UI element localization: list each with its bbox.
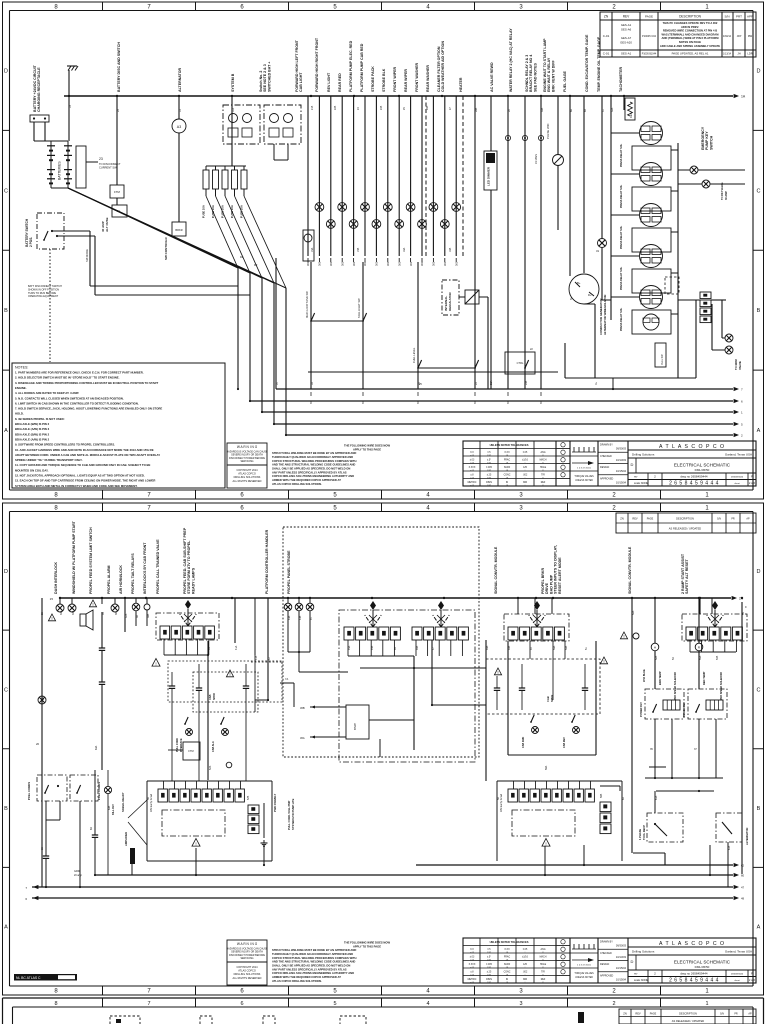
svg-text:THE FOLLOWING WIRE DOES NOW: THE FOLLOWING WIRE DOES NOW <box>344 940 390 944</box>
svg-text:C: C <box>4 188 8 194</box>
svg-text:09/30/03: 09/30/03 <box>616 447 627 451</box>
svg-text:DRAWN BY: DRAWN BY <box>600 444 613 447</box>
svg-text:6B: 6B <box>584 109 587 112</box>
svg-text:59B: 59B <box>600 793 603 798</box>
svg-text:REV: REV <box>623 15 630 19</box>
svg-text:SHALL ONLY BE APPLIED AS SPECI: SHALL ONLY BE APPLIED AS SPECIFIED. DO N… <box>272 964 350 968</box>
svg-text:AP: AP <box>746 518 750 521</box>
svg-text:STRUCTURAL WELDING MUST BE DON: STRUCTURAL WELDING MUST BE DONE BY AN AP… <box>272 451 356 455</box>
svg-text:P10045 C04: P10045 C04 <box>642 35 657 38</box>
svg-text:54B: 54B <box>716 655 719 660</box>
svg-text:21B: 21B <box>311 105 314 110</box>
svg-text:SIGNAL READY: SIGNAL READY <box>121 792 125 812</box>
svg-text:GES-A1: GES-A1 <box>621 23 632 27</box>
svg-text:STROBE PACK: STROBE PACK <box>371 66 375 92</box>
svg-text:PAGE: PAGE <box>650 1013 657 1016</box>
svg-text:CAB LIGHT: CAB LIGHT <box>299 72 303 92</box>
svg-text:9. SOFTWARE FROM SPEED CONTR: 9. SOFTWARE FROM SPEED CONTROLLERS TO PR… <box>15 443 115 447</box>
svg-text:FTM: FTM <box>114 190 120 194</box>
svg-text:AND THE AWS STRUCTURAL WELDING: AND THE AWS STRUCTURAL WELDING CODE GUID… <box>272 463 355 467</box>
svg-text:READY LAMPS: READY LAMPS <box>191 567 195 594</box>
svg-text:FRONT WASHER: FRONT WASHER <box>415 62 419 92</box>
svg-text:PAGE: PAGE <box>647 518 654 521</box>
svg-text:TO RF3 VALVE: TO RF3 VALVE <box>721 182 724 200</box>
svg-text:10/15/04: 10/15/04 <box>616 966 627 970</box>
svg-text:32A: 32A <box>611 107 614 112</box>
svg-text:PRT: PRT <box>736 15 742 19</box>
svg-text:COPCO STRUCTURAL WELDING PROCE: COPCO STRUCTURAL WELDING PROCEDURES COMP… <box>272 459 357 463</box>
svg-text:PULL CORD / KILL PMP: PULL CORD / KILL PMP <box>287 800 291 830</box>
svg-text:37A: 37A <box>125 613 128 618</box>
svg-text:1 PHASE: 1 PHASE <box>638 829 642 840</box>
svg-text:2 POS.: 2 POS. <box>29 237 33 247</box>
svg-text:FUEL SW: FUEL SW <box>661 354 664 365</box>
svg-text:SURF: SURF <box>504 964 511 966</box>
svg-text:ADD (TERMINAL) WIRE AT PIN 6 P: ADD (TERMINAL) WIRE AT PIN 6 PLATFORM <box>662 36 720 40</box>
svg-text:12. NOT JACK/TOTAL APPROACH O: 12. NOT JACK/TOTAL APPROACH OPTIONAL. LI… <box>15 474 145 478</box>
svg-text:ATLAS COPCO: ATLAS COPCO <box>238 970 256 973</box>
svg-text:UNLESS NOTED TOLERANCES: UNLESS NOTED TOLERANCES <box>490 443 529 447</box>
svg-text:PAGE: PAGE <box>645 15 653 19</box>
svg-text:PROPEL FEED SYSTEM LIMIT SWITC: PROPEL FEED SYSTEM LIMIT SWITCH <box>89 527 93 594</box>
svg-text:30 AMP: 30 AMP <box>725 191 728 200</box>
svg-text:10/15/04: 10/15/04 <box>616 469 627 473</box>
svg-text:NL BC ATLAS C: NL BC ATLAS C <box>16 976 41 980</box>
svg-text:SPKR: SPKR <box>213 693 216 700</box>
svg-text:ATLAS COPCO DRILLING SOLUTIONS: ATLAS COPCO DRILLING SOLUTIONS. <box>272 979 322 983</box>
svg-text:DML/45/50: DML/45/50 <box>695 965 710 969</box>
svg-text:AND THE AWS STRUCTURAL WELDING: AND THE AWS STRUCTURAL WELDING CODE GUID… <box>272 960 355 964</box>
svg-text:X.XX: X.XX <box>504 452 510 454</box>
svg-text:POWER RLY: POWER RLY <box>683 702 686 717</box>
svg-text:POWER RLY: POWER RLY <box>640 702 643 717</box>
svg-text:ALTERNATOR: ALTERNATOR <box>178 67 182 92</box>
svg-text:SEE PAD NOTES: SEE PAD NOTES <box>533 63 537 92</box>
svg-text:COPCO DRILLING SOLUTIONS ENGIN: COPCO DRILLING SOLUTIONS ENGINEERING AUT… <box>272 971 354 975</box>
svg-text:DESCRIPTION: DESCRIPTION <box>679 1012 697 1016</box>
svg-text:52A: 52A <box>632 610 635 615</box>
svg-text:61B: 61B <box>728 845 731 850</box>
svg-text:ZN: ZN <box>604 15 609 19</box>
svg-text:2658459444: 2658459444 <box>731 477 744 479</box>
svg-text:1: 1 <box>705 1001 708 1007</box>
svg-text:60: 60 <box>741 874 745 878</box>
svg-text:41B: 41B <box>255 655 258 660</box>
svg-text:PULL CORDS: PULL CORDS <box>97 782 101 800</box>
svg-text:REV: REV <box>632 517 638 521</box>
svg-text:SW CONTROLR: SW CONTROLR <box>164 237 168 260</box>
svg-text:ADAPT BETWEEN CORD. UNDER A CA: ADAPT BETWEEN CORD. UNDER A CAB AND NOTE… <box>15 453 160 457</box>
svg-text:5: 5 <box>333 1001 336 1007</box>
svg-text:TORQUE VALUES: TORQUE VALUES <box>574 475 594 478</box>
svg-text:11A: 11A <box>232 108 235 112</box>
svg-text:16B: 16B <box>449 247 452 252</box>
svg-text:P: P <box>751 475 753 479</box>
svg-text:8. 3B SERIES PROPEL IS NOT U: 8. 3B SERIES PROPEL IS NOT USED: <box>15 417 65 421</box>
svg-text:.002: .002 <box>523 972 528 974</box>
svg-text:47: 47 <box>741 886 745 890</box>
svg-text:APPROVED: APPROVED <box>600 974 614 977</box>
svg-text:!: ! <box>623 634 624 639</box>
svg-text:2B: 2B <box>117 109 120 112</box>
svg-text:THIS PC CHANGES UPDATE REV TO: THIS PC CHANGES UPDATE REV TO A 002 <box>663 21 718 25</box>
svg-text:28B: 28B <box>475 107 478 112</box>
svg-text:FUEL GAGE: FUEL GAGE <box>563 70 567 92</box>
svg-text:REAR WASHER: REAR WASHER <box>426 65 430 92</box>
svg-text:MACH: MACH <box>540 459 547 462</box>
svg-text:D: D <box>757 68 761 74</box>
svg-text:34B: 34B <box>72 610 75 615</box>
svg-text:!: ! <box>155 661 156 666</box>
svg-text:CAB ALA: CAB ALA <box>212 741 215 752</box>
svg-text:PROPEL CALL TRAINED VALVE: PROPEL CALL TRAINED VALVE <box>156 539 160 594</box>
svg-text:D: D <box>4 569 8 575</box>
svg-text:METRIC: METRIC <box>468 482 477 484</box>
svg-text:REAR WIPER: REAR WIPER <box>404 69 408 92</box>
svg-text:±1/16: ±1/16 <box>522 460 528 462</box>
svg-text:scale NONE: scale NONE <box>634 481 649 485</box>
svg-text:BRK VENT W DIFF: BRK VENT W DIFF <box>551 59 555 92</box>
svg-text:GES-A1: GES-A1 <box>621 52 632 56</box>
svg-text:SIGNAL CONVTR. MODULE: SIGNAL CONVTR. MODULE <box>494 546 498 594</box>
svg-text:FRAC: FRAC <box>504 459 511 462</box>
svg-text:CHECKED: CHECKED <box>600 952 612 955</box>
svg-text:UNLESS NOTED TOLERANCES: UNLESS NOTED TOLERANCES <box>490 940 529 944</box>
svg-text:2ND SPEED SOLENOID: 2ND SPEED SOLENOID <box>720 672 723 700</box>
svg-text:SPRING UNDER “DL” DURING TRANS: SPRING UNDER “DL” DURING TRANSPORT ONLY. <box>15 458 83 462</box>
svg-text:23: 23 <box>99 157 103 161</box>
svg-text:APPLY TO THIS PAGE: APPLY TO THIS PAGE <box>353 944 381 948</box>
svg-text:ATLAS COPCO DRILLING SOLUTIONS: ATLAS COPCO DRILLING SOLUTIONS. <box>272 482 322 486</box>
svg-text:W A R N I N G: W A R N I N G <box>237 942 258 946</box>
svg-text:INTERLOCKS BY CAB FRONT: INTERLOCKS BY CAB FRONT <box>143 542 147 594</box>
svg-text:REF: REF <box>541 482 546 484</box>
svg-text:ATLAS COPCO: ATLAS COPCO <box>238 473 256 476</box>
svg-text:APPROVED: APPROVED <box>600 477 614 480</box>
svg-text:BD/A AXLE (B/W) IS PIN 2: BD/A AXLE (B/W) IS PIN 2 <box>15 422 50 426</box>
svg-text:57B: 57B <box>247 795 250 800</box>
svg-text:PWD FWD/RLY: PWD FWD/RLY <box>273 793 277 812</box>
svg-text:PLATFORM PUMP ELEC. RED: PLATFORM PUMP ELEC. RED <box>349 40 353 92</box>
svg-text:sheet: sheet <box>734 979 740 982</box>
svg-text:CAB REV: CAB REV <box>563 737 566 748</box>
svg-text:RESET ALERT MODE: RESET ALERT MODE <box>558 557 562 594</box>
svg-text:DRILLING SOLUTIONS: DRILLING SOLUTIONS <box>234 973 261 976</box>
svg-text:!: ! <box>229 672 230 677</box>
svg-text:REV: REV <box>635 1012 641 1016</box>
svg-text:ANY PART UNLESS SPECIFICALLY A: ANY PART UNLESS SPECIFICALLY APPROVED BY… <box>272 967 347 971</box>
svg-text:ADD IN PREV:: ADD IN PREV: <box>681 25 699 29</box>
svg-text:BD/A AXLE (A/W) IS PIN 2: BD/A AXLE (A/W) IS PIN 2 <box>15 437 50 441</box>
svg-text:ANY PART UNLESS SPECIFICALLY A: ANY PART UNLESS SPECIFICALLY APPROVED BY… <box>272 470 347 474</box>
svg-text:CTRL: CTRL <box>517 361 524 365</box>
svg-text:C: C <box>4 687 8 693</box>
svg-text:B: B <box>757 308 761 314</box>
svg-text:DESCRIPTION: DESCRIPTION <box>676 517 694 521</box>
svg-text:10/13/03: 10/13/03 <box>616 458 627 462</box>
svg-text:THOROUGHLY QUALIFIED AN ACCORD: THOROUGHLY QUALIFIED AN ACCORDINGLY APPR… <box>272 952 353 956</box>
svg-text:AMPLIFIER: AMPLIFIER <box>124 832 128 846</box>
svg-text:±.005: ±.005 <box>486 467 492 469</box>
svg-text:31 MAIN: 31 MAIN <box>534 154 538 164</box>
svg-text:!: ! <box>497 670 498 675</box>
svg-text:REAR RED: REAR RED <box>338 73 342 92</box>
svg-text:NOTES:: NOTES: <box>15 366 28 370</box>
svg-text:D: D <box>631 462 634 467</box>
svg-text:1 2 3 4 5 6mm: 1 2 3 4 5 6mm <box>577 965 591 967</box>
svg-text:DIMS: DIMS <box>486 979 492 981</box>
svg-text:2. HOLD SELECTOR SWITCH MUST: 2. HOLD SELECTOR SWITCH MUST BE IN “STOR… <box>15 376 120 380</box>
svg-text:SWITCH: SWITCH <box>709 135 713 150</box>
svg-text:2658459444: 2658459444 <box>731 974 744 976</box>
svg-text:ELECTRICAL SCHEMATIC: ELECTRICAL SCHEMATIC <box>674 960 731 965</box>
svg-text:43B: 43B <box>299 615 302 620</box>
svg-text:8D: 8D <box>90 827 93 830</box>
svg-text:52B: 52B <box>655 655 658 660</box>
svg-text:B: B <box>4 806 8 812</box>
svg-text:1. PART NUMBERS ARE FOR REFE: 1. PART NUMBERS ARE FOR REFERENCE ONLY. … <box>15 371 144 375</box>
svg-text:24B: 24B <box>380 105 383 110</box>
svg-text:7. HOLD SWITCH SERVICE, JACK: 7. HOLD SWITCH SERVICE, JACK, HOLDING, H… <box>15 407 162 411</box>
svg-text:S/N: S/N <box>717 518 721 521</box>
svg-text:AC VALVE REWD: AC VALVE REWD <box>490 62 494 92</box>
svg-text:A3: A3 <box>177 125 181 129</box>
svg-text:10/13/03: 10/13/03 <box>616 955 627 959</box>
svg-text:FORWARD HIGH RIGHT FRONT: FORWARD HIGH RIGHT FRONT <box>315 37 319 92</box>
svg-text:38B: 38B <box>147 613 150 618</box>
svg-text:BRN TEMP: BRN TEMP <box>658 671 662 685</box>
svg-text:22B: 22B <box>334 105 337 110</box>
svg-text:VALVE: VALVE <box>738 361 742 370</box>
svg-text:THOROUGHLY QUALIFIED AN ACCORD: THOROUGHLY QUALIFIED AN ACCORDINGLY APPR… <box>272 455 353 459</box>
svg-text:Drilling Solutions: Drilling Solutions <box>632 453 655 457</box>
svg-text:3: 3 <box>519 1001 522 1007</box>
svg-text:±.25: ±.25 <box>487 972 492 974</box>
svg-text:TAHL LIGHT SW: TAHL LIGHT SW <box>357 298 361 318</box>
svg-text:REF: REF <box>541 979 546 981</box>
svg-text:CAB FWD: CAB FWD <box>522 736 525 748</box>
svg-text:APPLY TO THIS PAGE: APPLY TO THIS PAGE <box>353 447 381 451</box>
svg-text:4. ALL DIODES ARE RATED TO K: 4. ALL DIODES ARE RATED TO KEEP AT. 3 AM… <box>15 391 79 395</box>
svg-text:AIR HORN/LOCK: AIR HORN/LOCK <box>119 565 123 594</box>
svg-text:SWITCHED BAT +: SWITCHED BAT + <box>267 62 271 92</box>
svg-text:F.L.: F.L. <box>117 209 122 213</box>
svg-text:A: A <box>757 925 761 931</box>
svg-text:HOLE: HOLE <box>540 467 547 469</box>
svg-text:50A: 50A <box>553 645 556 650</box>
svg-text:15B: 15B <box>357 247 360 252</box>
svg-text:ARMED WITH THE REQUIRED COPCO: ARMED WITH THE REQUIRED COPCO APPROVED A… <box>272 975 341 979</box>
svg-text:09/30/03: 09/30/03 <box>616 944 627 948</box>
svg-text:62: 62 <box>741 864 745 868</box>
svg-text:7: 7 <box>147 1001 150 1007</box>
svg-text:Garland, Texas USA: Garland, Texas USA <box>725 950 752 954</box>
svg-text:PROPEL ALARM: PROPEL ALARM <box>107 565 111 594</box>
svg-text:JH: JH <box>737 52 740 56</box>
svg-text:sheet: sheet <box>734 482 740 485</box>
svg-text:IN: IN <box>506 482 509 484</box>
svg-text:!: ! <box>51 616 52 621</box>
svg-text:C: C <box>757 687 761 693</box>
svg-text:SAFETY ALT RESET: SAFETY ALT RESET <box>685 559 689 594</box>
svg-text:10. ADD JACKET HARNESS WIRE A: 10. ADD JACKET HARNESS WIRE AND AND NOTE… <box>15 448 154 452</box>
svg-text:ARMED WITH THE REQUIRED COPCO: ARMED WITH THE REQUIRED COPCO APPROVED A… <box>272 478 341 482</box>
svg-text:ALTERNATOR W/REGULATOR: ALTERNATOR W/REGULATOR <box>603 295 607 335</box>
svg-text:MOUNTED ON COIL DAY.: MOUNTED ON COIL DAY. <box>15 468 49 472</box>
svg-text:D: D <box>757 569 761 575</box>
svg-text:HOLE: HOLE <box>540 964 547 966</box>
svg-text:D: D <box>631 959 634 964</box>
svg-text:COPYRIGHT 2014: COPYRIGHT 2014 <box>236 469 258 472</box>
svg-text:PR: PR <box>731 518 735 521</box>
svg-text:SM DIODE: SM DIODE <box>85 249 89 262</box>
svg-text:TIR: TIR <box>541 972 545 974</box>
svg-text:C: C <box>757 188 761 194</box>
svg-text:dwg no 2658459444: dwg no 2658459444 <box>680 972 708 976</box>
svg-text:6: 6 <box>240 1001 243 1007</box>
svg-text:±.05: ±.05 <box>523 949 528 951</box>
svg-text:FTM: FTM <box>188 750 193 753</box>
svg-text:PR: PR <box>734 1013 738 1016</box>
svg-text:ZN: ZN <box>620 517 624 521</box>
svg-text:PAGE UPDATED, AS REL A1: PAGE UPDATED, AS REL A1 <box>672 52 709 56</box>
svg-text:A: A <box>4 925 8 931</box>
svg-text:PLATFORM PUMP CAB RED: PLATFORM PUMP CAB RED <box>360 43 364 92</box>
svg-text:REV LIGHT: REV LIGHT <box>327 72 331 92</box>
svg-text:ALL RIGHTS RESERVED: ALL RIGHTS RESERVED <box>233 480 262 483</box>
svg-text:59A: 59A <box>545 765 548 770</box>
svg-text:RED TEMP: RED TEMP <box>702 671 706 685</box>
svg-text:GES-A6: GES-A6 <box>621 27 632 31</box>
svg-text:2 of 6: 2 of 6 <box>749 979 756 982</box>
svg-text:B: B <box>757 806 761 812</box>
svg-text:NOTES ON PAGE: NOTES ON PAGE <box>679 40 701 44</box>
svg-text:20A: 20A <box>490 380 493 385</box>
svg-text:X.X: X.X <box>470 452 474 454</box>
svg-text:3. DISENGAGE AND TOWING PROP: 3. DISENGAGE AND TOWING PROPORTIONING CO… <box>15 381 159 385</box>
svg-text:16A: 16A <box>403 247 406 252</box>
svg-text:SYSTEM HYD PUMP LITE: SYSTEM HYD PUMP LITE <box>291 798 295 830</box>
svg-text:11. COPY GROUND AND TORQUE SE: 11. COPY GROUND AND TORQUE SEQUENCE TO C… <box>15 463 151 467</box>
svg-text:5. N.O. CONTACTS WILL CLOSED: 5. N.O. CONTACTS WILL CLOSED WHEN SWITCH… <box>15 396 124 400</box>
svg-text:HEATER: HEATER <box>459 77 463 92</box>
svg-text:SURF: SURF <box>504 467 511 469</box>
svg-text:!: ! <box>603 659 604 664</box>
svg-text:ALL RIGHTS RESERVED: ALL RIGHTS RESERVED <box>233 977 262 980</box>
svg-text:13. EACH ON TOP OF AND TOP CA: 13. EACH ON TOP OF AND TOP CARTRIDGE FRO… <box>15 479 155 483</box>
svg-text:!: ! <box>545 841 546 846</box>
svg-text:MM: MM <box>523 979 527 981</box>
svg-text:UNLESS NOTED: UNLESS NOTED <box>575 480 593 482</box>
svg-text:1B: 1B <box>69 105 72 108</box>
svg-text:MM: MM <box>523 482 527 484</box>
svg-text:8: 8 <box>54 1001 57 1007</box>
svg-text:ANG: ANG <box>541 948 546 951</box>
svg-text:W A R N I N G: W A R N I N G <box>237 445 258 449</box>
svg-text:GES-A7: GES-A7 <box>621 36 632 40</box>
svg-text:X.XX: X.XX <box>504 949 510 951</box>
svg-text:45B: 45B <box>371 645 374 650</box>
svg-text:Drilling Solutions: Drilling Solutions <box>632 950 655 954</box>
svg-text:4: 4 <box>426 1001 429 1007</box>
svg-text:DRILLING SOLUTIONS: DRILLING SOLUTIONS <box>234 476 261 479</box>
svg-text:1/13/14: 1/13/14 <box>723 53 732 56</box>
svg-text:ADD CABLE AND SPRING ASSEMBLY: ADD CABLE AND SPRING ASSEMBLY UPDATE <box>660 44 720 48</box>
svg-text:43A: 43A <box>288 615 291 620</box>
svg-text:DASH INTERLOCK: DASH INTERLOCK <box>54 561 58 594</box>
svg-text:GES-A20: GES-A20 <box>620 41 632 45</box>
svg-text:OPERATING EQUIPMENT: OPERATING EQUIPMENT <box>28 295 59 298</box>
svg-text:WINDSHIELD W/ PLATFORM PUMP ST: WINDSHIELD W/ PLATFORM PUMP START <box>72 520 76 594</box>
svg-text:!: ! <box>195 841 196 846</box>
svg-text:S/N: S/N <box>724 15 729 19</box>
svg-text:61A: 61A <box>655 795 658 800</box>
svg-text:TOOL RECP: TOOL RECP <box>642 825 646 840</box>
svg-text:ELECTRICAL SCHEMATIC: ELECTRICAL SCHEMATIC <box>674 463 731 468</box>
svg-text:FRONT WIPER: FRONT WIPER <box>393 66 397 92</box>
svg-text:SHALL ONLY BE APPLIED AS SPECI: SHALL ONLY BE APPLIED AS SPECIFIED. DO N… <box>272 467 350 471</box>
svg-text:BRKR: BRKR <box>175 228 182 232</box>
svg-text:4/30/14: 4/30/14 <box>723 35 732 38</box>
svg-text:26B: 26B <box>426 105 429 110</box>
svg-text:ANG: ANG <box>541 451 546 454</box>
svg-text:2 6 5 8 4 5 9 4 4 4: 2 6 5 8 4 5 9 4 4 4 <box>669 481 719 487</box>
svg-text:PRESS RELAY SOL: PRESS RELAY SOL <box>620 184 623 208</box>
svg-text:TEMP. ENGINE OIL TEMP. GAGE: TEMP. ENGINE OIL TEMP. GAGE <box>597 36 601 92</box>
svg-text:C-01: C-01 <box>603 34 610 38</box>
svg-text:PRESS RELAY SOL: PRESS RELAY SOL <box>620 225 623 249</box>
svg-text:STRUCTURAL WELDING MUST BE DON: STRUCTURAL WELDING MUST BE DONE BY AN AP… <box>272 948 356 952</box>
svg-text:FRAC: FRAC <box>504 956 511 959</box>
svg-text:34A: 34A <box>60 610 63 615</box>
svg-text:CONC: CONC <box>504 475 511 477</box>
svg-text:.002: .002 <box>523 475 528 477</box>
svg-text:ZN: ZN <box>623 1012 627 1016</box>
svg-text:2 6 5 8 4 5 9 4 4 4: 2 6 5 8 4 5 9 4 4 4 <box>669 978 719 984</box>
svg-text:FUEL LEVEL: FUEL LEVEL <box>412 347 416 363</box>
svg-text:AN Early Grad: AN Early Grad <box>499 794 503 812</box>
svg-text:X.XXX: X.XXX <box>469 467 476 469</box>
svg-text:BATTERY DISC AND SWITCH: BATTERY DISC AND SWITCH <box>117 42 121 92</box>
svg-text:AS RELEASED / UPDATED: AS RELEASED / UPDATED <box>672 1019 705 1023</box>
svg-text:63A: 63A <box>95 745 98 750</box>
svg-text:HOLD.: HOLD. <box>15 412 24 416</box>
svg-text:A T L A S C O P C O: A T L A S C O P C O <box>659 941 725 947</box>
svg-text:RW: RW <box>748 34 753 38</box>
svg-text:PRESS RELAY SOL: PRESS RELAY SOL <box>620 266 623 290</box>
svg-text:PULSE WID: PULSE WID <box>546 124 550 139</box>
svg-text:1 2 3 4 5 6mm: 1 2 3 4 5 6mm <box>577 468 591 470</box>
svg-text:SERVICING: SERVICING <box>240 957 253 960</box>
svg-text:PROPEL TAILT RELAYS: PROPEL TAILT RELAYS <box>131 553 135 594</box>
svg-text:S/N: S/N <box>720 1013 724 1016</box>
svg-text:H: H <box>654 646 656 650</box>
svg-text:X.X: X.X <box>470 949 474 951</box>
svg-text:±.5°: ±.5° <box>487 957 491 959</box>
svg-text:30B: 30B <box>541 107 544 112</box>
svg-text:15: 15 <box>50 597 54 601</box>
svg-text:SYSTEM AREA BOTH AND METAL IN: SYSTEM AREA BOTH AND METAL IN CORRECTLY … <box>15 484 138 488</box>
svg-text:ALTERNATOR: ALTERNATOR <box>745 827 749 845</box>
svg-text:IN: IN <box>506 979 509 981</box>
svg-text:SPKR: SPKR <box>550 695 554 702</box>
svg-text:20B: 20B <box>525 380 528 385</box>
svg-text:C-01: C-01 <box>603 52 610 56</box>
svg-text:SIGNAL CONVTR. MODULE: SIGNAL CONVTR. MODULE <box>628 546 632 594</box>
svg-text:JFP: JFP <box>737 34 742 38</box>
svg-text:DESIGN: DESIGN <box>600 963 609 966</box>
svg-text:TIR: TIR <box>541 475 545 477</box>
